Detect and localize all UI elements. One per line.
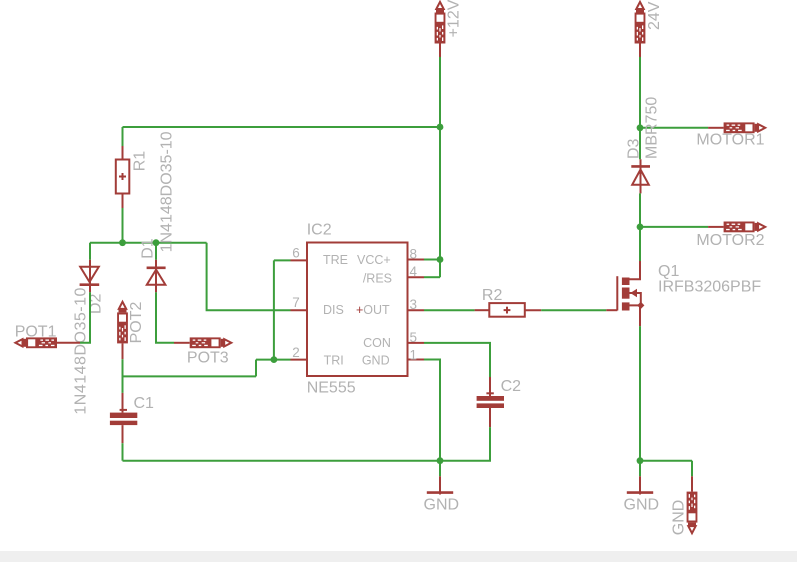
wire 24V vertical to motor rail <box>639 57 641 128</box>
wire pin 1 to ground rail <box>424 360 440 461</box>
wire D3 to MOTOR2 node <box>639 193 641 227</box>
wire rail to D1 <box>155 243 157 260</box>
wire R1 bottom to diode rail <box>122 208 124 243</box>
connector POT3 <box>190 337 232 348</box>
svg-text:POT3: POT3 <box>187 350 229 367</box>
diode D3 <box>631 159 650 193</box>
wire C2 down to ground rail <box>440 427 490 461</box>
connector GND <box>687 492 698 534</box>
svg-text:D3: D3 <box>625 138 642 159</box>
pin stub 7 <box>291 309 308 311</box>
wire ground rail horizontal <box>123 460 441 462</box>
svg-text:IC2: IC2 <box>307 221 332 238</box>
wire ground stub <box>439 461 441 477</box>
wire TRI rail horizontal <box>123 375 257 377</box>
svg-text:VCC+: VCC+ <box>357 253 391 267</box>
svg-text:NE555: NE555 <box>307 379 356 396</box>
svg-text:MOTOR1: MOTOR1 <box>696 132 764 149</box>
svg-text:GND: GND <box>624 497 660 514</box>
svg-text:DIS: DIS <box>323 303 344 317</box>
connector MOTOR2 <box>724 222 766 233</box>
supply +12V connector SUPPLY1 <box>435 2 446 44</box>
wire rail to D2 <box>89 243 91 260</box>
wire R1 top drop <box>122 127 124 146</box>
wire to pin 4 <box>424 276 440 278</box>
svg-text:TRI: TRI <box>324 354 344 368</box>
svg-text:6: 6 <box>292 245 300 260</box>
svg-text:+OUT: +OUT <box>356 303 390 317</box>
junction ground rail <box>437 457 444 464</box>
junction D1/rail <box>153 239 160 246</box>
pin stub 8 <box>408 259 425 261</box>
wire POT2 down to C1 <box>122 359 124 393</box>
resistor R1 <box>116 146 130 208</box>
wire C1 bottom to ground rail <box>122 443 124 461</box>
POT2 pin lead <box>122 343 124 359</box>
resistor R2 <box>475 303 542 317</box>
supply 24V connector SUPPLY2 <box>635 2 646 44</box>
wire D1 to POT3 <box>156 292 174 343</box>
svg-text:4: 4 <box>410 264 418 279</box>
svg-text:D1: D1 <box>140 238 157 259</box>
IC2 NE555 box <box>307 243 408 377</box>
wire D2 to POT1 <box>80 292 90 343</box>
connector MOTOR1 <box>724 122 766 133</box>
diode D2 <box>80 260 100 293</box>
wire R2 to Q1 gate <box>541 309 606 311</box>
svg-text:24V: 24V <box>646 1 663 30</box>
POT3 pin lead <box>174 342 190 344</box>
junction right ground node <box>637 457 644 464</box>
wire to MOTOR2 <box>640 226 708 228</box>
svg-text:7: 7 <box>292 295 300 310</box>
wire right ground rail <box>640 460 692 462</box>
GND connector pin lead <box>691 476 693 491</box>
svg-text:R1: R1 <box>131 151 148 172</box>
wire TRI rail jog up <box>255 360 257 377</box>
svg-text:TRE: TRE <box>323 253 348 267</box>
wire pin 3 to R2 <box>424 309 475 311</box>
wire top horizontal rail to R1 <box>123 126 441 128</box>
pin stub 1 <box>408 359 425 361</box>
svg-text:/RES: /RES <box>363 271 392 285</box>
ground symbol GND (right) <box>627 476 653 494</box>
wire pin 5 to C2 <box>424 343 490 377</box>
pin stub 4 <box>408 276 425 278</box>
pin stub 3 <box>408 309 425 311</box>
svg-text:1N4148DO35-10: 1N4148DO35-10 <box>73 287 90 414</box>
wire to pin 8 <box>424 259 440 261</box>
svg-text:8: 8 <box>410 247 418 262</box>
svg-text:CON: CON <box>363 336 391 350</box>
capacitor C2 <box>477 377 504 427</box>
svg-text:GND: GND <box>362 354 390 368</box>
svg-text:POT1: POT1 <box>15 323 57 340</box>
junction R1/rail <box>119 239 126 246</box>
svg-text:+12V: +12V <box>445 0 462 37</box>
supply +12V pin lead <box>439 44 441 58</box>
pin stub 5 <box>408 342 425 344</box>
svg-text:R2: R2 <box>482 287 503 304</box>
ground symbol GND (left) <box>427 476 453 494</box>
supply 24V pin lead <box>639 44 641 58</box>
svg-text:3: 3 <box>410 297 418 312</box>
wire rail right drop to pin 7 <box>207 243 291 311</box>
wire TRE to pin 6 <box>274 259 291 261</box>
wire +12V vertical to rail <box>439 57 441 127</box>
wire TRI to pin 2 <box>256 359 291 361</box>
bottom scrollbar area <box>0 551 797 562</box>
wire 24V node to D3 <box>639 128 641 160</box>
svg-text:MBR750: MBR750 <box>643 97 660 159</box>
svg-text:IRFB3206PBF: IRFB3206PBF <box>658 278 761 295</box>
wire down to GND connector <box>691 461 693 477</box>
svg-text:5: 5 <box>410 330 418 345</box>
svg-text:POT2: POT2 <box>128 302 145 344</box>
svg-text:1: 1 <box>410 347 418 362</box>
junction MOTOR2 node <box>637 224 644 231</box>
svg-text:MOTOR2: MOTOR2 <box>696 232 764 249</box>
wire MOTOR2 node to Q1 drain <box>639 227 641 261</box>
MOTOR2 pin lead <box>708 226 724 228</box>
wire +12V down to IC pins 8/4 <box>439 127 441 277</box>
wire ground stub right <box>639 461 641 477</box>
junction +12V rail <box>437 124 444 131</box>
svg-text:GND: GND <box>424 497 460 514</box>
junction pin 8 <box>437 256 444 263</box>
diode D1 <box>147 260 166 293</box>
connector POT2 <box>117 302 128 344</box>
pin stub 6 <box>291 259 308 261</box>
POT1 pin lead <box>57 342 80 344</box>
svg-text:2: 2 <box>292 345 300 360</box>
wire TRE vertical link <box>273 260 275 359</box>
connector POT1 <box>15 337 57 348</box>
wire diode rail horizontal <box>90 242 207 244</box>
pin stub 2 <box>291 359 308 361</box>
junction TRE/TRI node <box>271 356 278 363</box>
svg-text:GND: GND <box>670 500 687 536</box>
MOTOR1 pin lead <box>708 127 724 129</box>
junction MOTOR1 node <box>637 124 644 131</box>
wire to MOTOR1 <box>640 127 708 129</box>
svg-text:C1: C1 <box>134 395 155 412</box>
capacitor C1 <box>110 393 137 443</box>
svg-text:C2: C2 <box>501 378 522 395</box>
svg-text:1N4148DO35-10: 1N4148DO35-10 <box>158 131 175 252</box>
wire Q1 source to ground node <box>639 326 641 461</box>
transistor Q1 IRFB3206PBF <box>606 261 644 326</box>
